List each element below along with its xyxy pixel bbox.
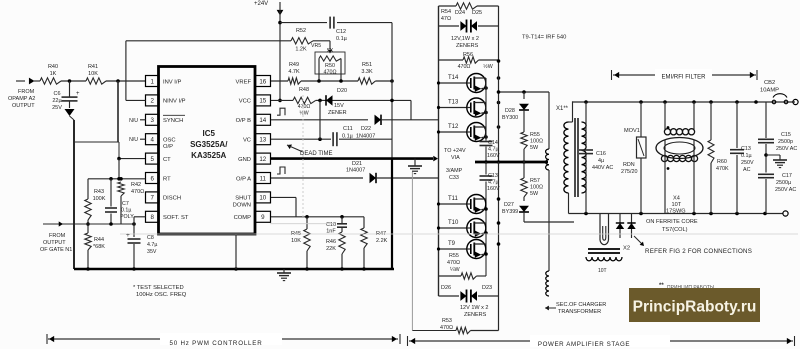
svg-text:4.7µ: 4.7µ [488, 180, 499, 186]
svg-text:C6: C6 [53, 91, 60, 97]
svg-text:250V: 250V [741, 160, 754, 166]
svg-text:SYNCH: SYNCH [163, 118, 183, 124]
svg-text:* TEST SELECTED: * TEST SELECTED [133, 285, 184, 291]
svg-text:O/P: O/P [163, 144, 173, 150]
svg-text:6: 6 [150, 175, 154, 182]
svg-text:4µ: 4µ [598, 158, 604, 164]
svg-text:VCC: VCC [239, 99, 251, 105]
svg-text:POWER AMPLIFIER STAGE: POWER AMPLIFIER STAGE [538, 341, 630, 348]
svg-text:C11: C11 [343, 126, 353, 132]
svg-text:14: 14 [259, 117, 266, 124]
svg-text:4: 4 [150, 137, 154, 144]
svg-text:FROM: FROM [49, 233, 66, 239]
svg-text:5: 5 [150, 156, 154, 163]
svg-text:100Ω: 100Ω [530, 185, 543, 191]
svg-text:5W: 5W [530, 145, 539, 151]
svg-text:13: 13 [259, 137, 266, 144]
svg-text:1K: 1K [50, 71, 57, 77]
svg-text:C10: C10 [326, 222, 336, 228]
svg-text:15V: 15V [334, 103, 344, 109]
svg-text:15: 15 [259, 98, 266, 105]
svg-text:35V: 35V [147, 249, 157, 255]
svg-text:R52: R52 [296, 28, 306, 34]
svg-text:BY399: BY399 [502, 209, 518, 215]
svg-text:47Ω: 47Ω [441, 16, 451, 22]
svg-text:R48: R48 [299, 87, 309, 93]
svg-text:T9-T14= IRF 540: T9-T14= IRF 540 [522, 35, 566, 41]
svg-text:R55: R55 [530, 132, 540, 138]
svg-text:440V AC: 440V AC [592, 165, 613, 171]
svg-text:ZENERS: ZENERS [464, 312, 487, 318]
svg-text:MOV1: MOV1 [624, 128, 640, 134]
svg-text:R43: R43 [94, 189, 104, 195]
svg-text:50 Hz PWM CONTROLLER: 50 Hz PWM CONTROLLER [169, 340, 262, 347]
svg-text:*68K: *68K [93, 244, 105, 250]
svg-text:ZENER: ZENER [328, 110, 347, 116]
svg-text:R40: R40 [48, 64, 58, 70]
svg-text:4.7µ: 4.7µ [488, 147, 499, 153]
svg-text:470Ω: 470Ω [298, 104, 311, 110]
svg-text:D25: D25 [472, 10, 482, 16]
svg-text:4.7µ: 4.7µ [147, 242, 157, 248]
svg-text:D27: D27 [504, 202, 514, 208]
svg-text:17SWG: 17SWG [666, 209, 686, 215]
svg-text:C33: C33 [449, 175, 459, 181]
svg-text:100Hz OSC. FREQ: 100Hz OSC. FREQ [136, 292, 187, 298]
svg-text:100K: 100K [93, 196, 106, 202]
svg-text:D21: D21 [352, 161, 362, 167]
svg-text:8: 8 [150, 214, 154, 221]
svg-text:10K: 10K [88, 71, 98, 77]
svg-text:POLY: POLY [120, 214, 134, 220]
svg-text:22µ: 22µ [52, 98, 62, 104]
svg-text:VIA: VIA [451, 155, 460, 161]
svg-text:9: 9 [261, 214, 265, 221]
svg-text:SHUT: SHUT [235, 196, 251, 202]
svg-text:10T: 10T [672, 202, 682, 208]
svg-text:R55: R55 [449, 253, 459, 259]
svg-text:C14: C14 [488, 140, 498, 146]
svg-text:5W: 5W [530, 191, 539, 197]
svg-text:CB2: CB2 [764, 80, 775, 86]
svg-text:C8: C8 [147, 235, 154, 241]
svg-text:250V AC: 250V AC [776, 146, 797, 152]
svg-text:3.3K: 3.3K [361, 69, 373, 75]
svg-text:DOWN: DOWN [233, 202, 251, 208]
svg-text:D22: D22 [361, 126, 371, 132]
svg-text:OUTPUT: OUTPUT [43, 240, 66, 246]
svg-text:0.1µ: 0.1µ [121, 208, 131, 214]
svg-text:1.2K: 1.2K [295, 47, 307, 53]
svg-text:470Ω: 470Ω [131, 189, 144, 195]
svg-text:VREF: VREF [236, 79, 252, 85]
svg-text:2500p: 2500p [778, 139, 793, 145]
svg-text:R53: R53 [442, 318, 452, 324]
svg-text:5K: 5K [327, 48, 334, 54]
svg-text:+24V: +24V [254, 1, 268, 7]
svg-text:DISCH: DISCH [163, 196, 181, 202]
svg-text:160V: 160V [487, 153, 500, 159]
svg-text:T9: T9 [448, 241, 456, 247]
svg-text:C12: C12 [336, 29, 346, 35]
svg-text:N/U: N/U [129, 137, 138, 143]
svg-text:470Ω: 470Ω [323, 70, 336, 76]
svg-text:INV I/P: INV I/P [163, 79, 181, 85]
svg-text:1: 1 [150, 78, 154, 85]
svg-text:T12: T12 [448, 124, 459, 130]
svg-text:+: + [126, 232, 130, 239]
svg-text:OF GATE N1: OF GATE N1 [40, 247, 72, 253]
svg-text:+: + [76, 91, 80, 97]
svg-text:C17: C17 [782, 173, 792, 179]
svg-text:470Ω: 470Ω [447, 260, 460, 266]
svg-text:VC: VC [243, 138, 251, 144]
svg-text:T10: T10 [448, 220, 459, 226]
svg-text:KA3525A: KA3525A [191, 151, 226, 160]
svg-text:275/20: 275/20 [621, 169, 638, 175]
svg-text:C13: C13 [741, 146, 751, 152]
svg-text:100Ω: 100Ω [530, 139, 543, 145]
svg-text:12: 12 [259, 156, 266, 163]
svg-text:1N4007: 1N4007 [346, 168, 365, 174]
svg-text:C13: C13 [488, 173, 498, 179]
svg-text:X2: X2 [623, 246, 630, 252]
svg-text:½W: ½W [299, 110, 308, 117]
svg-text:250V AC: 250V AC [775, 187, 796, 193]
svg-text:IC5: IC5 [203, 129, 216, 138]
svg-text:C15: C15 [781, 132, 791, 138]
svg-text:OUTPUT: OUTPUT [12, 103, 35, 109]
svg-text:REFER FIG 2 FOR CONNECTIONS: REFER FIG 2 FOR CONNECTIONS [645, 248, 752, 255]
svg-text:10: 10 [259, 195, 266, 202]
svg-text:R57: R57 [530, 178, 540, 184]
svg-text:R49: R49 [289, 62, 299, 68]
svg-text:C16: C16 [596, 151, 606, 157]
svg-text:16: 16 [259, 78, 266, 85]
svg-text:O/P B: O/P B [236, 118, 251, 124]
svg-text:CT: CT [163, 157, 171, 163]
svg-text:X1**: X1** [556, 106, 569, 112]
svg-text:R41: R41 [88, 64, 98, 70]
svg-text:VR5: VR5 [311, 43, 321, 49]
svg-text:D24: D24 [455, 10, 465, 16]
svg-text:2: 2 [150, 98, 154, 105]
svg-text:D26: D26 [441, 285, 451, 291]
svg-text:¼W: ¼W [450, 267, 460, 273]
svg-text:R50: R50 [325, 63, 335, 69]
svg-text:12V 1W x 2: 12V 1W x 2 [460, 305, 488, 311]
svg-text:10T: 10T [598, 268, 607, 274]
svg-text:C7: C7 [122, 201, 129, 207]
svg-text:SEC.OF CHARGER: SEC.OF CHARGER [556, 302, 606, 308]
svg-text:PrincipRaboty.ru: PrincipRaboty.ru [633, 299, 757, 316]
svg-text:1N4007: 1N4007 [356, 134, 375, 140]
svg-text:12V,1W x 2: 12V,1W x 2 [451, 36, 479, 42]
svg-text:7: 7 [150, 195, 154, 202]
svg-text:N/U: N/U [129, 118, 138, 124]
svg-text:T13: T13 [448, 100, 459, 106]
svg-text:22K: 22K [326, 246, 336, 252]
svg-text:NINV I/P: NINV I/P [163, 99, 186, 105]
svg-text:OSC: OSC [163, 138, 176, 144]
svg-text:R51: R51 [362, 62, 372, 68]
svg-text:0.1µ: 0.1µ [741, 153, 752, 159]
svg-text:EMI/RFI FILTER: EMI/RFI FILTER [662, 75, 707, 81]
svg-text:½W: ½W [483, 63, 492, 70]
svg-text:R60: R60 [717, 159, 727, 165]
svg-text:TRANSFORMER: TRANSFORMER [558, 309, 601, 315]
svg-text:O/P A: O/P A [236, 176, 251, 182]
svg-text:D20: D20 [337, 88, 347, 94]
svg-text:BY300: BY300 [502, 115, 518, 121]
svg-text:470K: 470K [716, 166, 729, 172]
svg-text:470Ω: 470Ω [458, 64, 471, 70]
svg-text:D28: D28 [505, 108, 515, 114]
svg-text:3: 3 [150, 117, 154, 124]
svg-text:R46: R46 [326, 239, 336, 245]
svg-text:SOFT. ST: SOFT. ST [163, 215, 189, 221]
svg-text:25V: 25V [52, 105, 62, 111]
svg-text:R44: R44 [94, 237, 104, 243]
svg-text:DEAD TIME: DEAD TIME [300, 151, 333, 157]
svg-text:ON FERRITE CORE: ON FERRITE CORE [646, 219, 698, 225]
svg-text:GND: GND [238, 157, 251, 163]
svg-text:2500µ: 2500µ [776, 180, 791, 186]
svg-text:R56: R56 [463, 52, 473, 58]
svg-text:AC: AC [743, 167, 751, 173]
svg-text:RT: RT [163, 176, 171, 182]
svg-text:R42: R42 [131, 182, 141, 188]
svg-text:ZENERS: ZENERS [456, 43, 479, 49]
svg-text:D23: D23 [482, 285, 492, 291]
svg-text:10AMP: 10AMP [760, 88, 779, 94]
svg-text:11: 11 [260, 175, 267, 182]
svg-text:R54: R54 [441, 9, 451, 15]
svg-text:COMP: COMP [234, 215, 252, 221]
svg-text:TO +24V: TO +24V [444, 148, 466, 154]
svg-text:2.2K: 2.2K [376, 238, 388, 244]
svg-text:3/AMP: 3/AMP [446, 168, 463, 174]
svg-text:TS7(COL): TS7(COL) [662, 227, 688, 233]
svg-text:10K: 10K [291, 238, 301, 244]
svg-text:0.1µ: 0.1µ [336, 36, 348, 42]
svg-text:4.7K: 4.7K [288, 69, 300, 75]
svg-text:T14: T14 [448, 75, 459, 81]
svg-text:T11: T11 [448, 196, 459, 202]
svg-text:FROM: FROM [18, 89, 35, 95]
svg-text:OPAMP A2: OPAMP A2 [8, 96, 35, 102]
svg-text:0.1µ: 0.1µ [342, 134, 354, 140]
svg-text:SG3525A/: SG3525A/ [190, 140, 228, 149]
svg-text:RDN: RDN [623, 162, 635, 168]
svg-text:X4: X4 [673, 196, 680, 202]
